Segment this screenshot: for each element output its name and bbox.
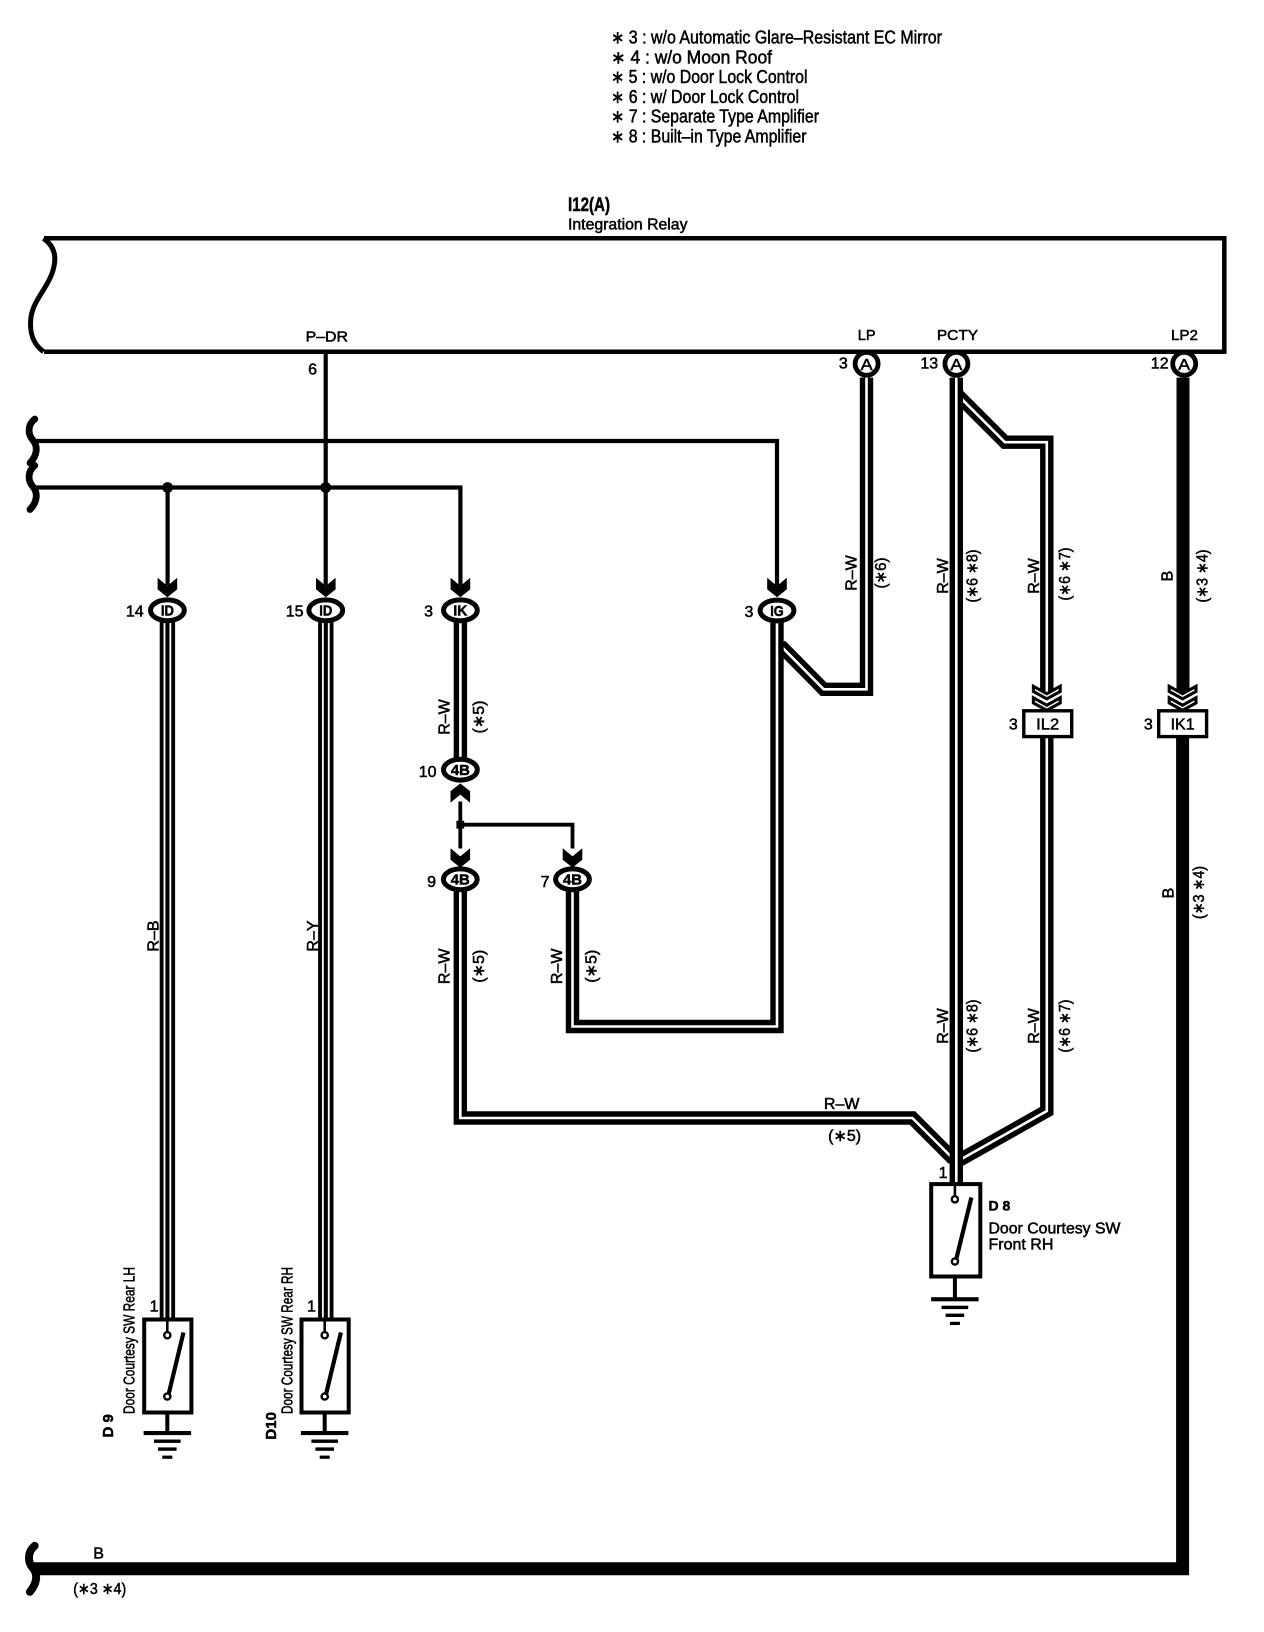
wire below IL2 to D8 junction (double line)	[959, 737, 1047, 1161]
ground stub below D9	[165, 1413, 169, 1432]
svg-text:LP: LP	[858, 327, 876, 344]
svg-text:1: 1	[939, 1165, 948, 1182]
ground stub below D8	[953, 1277, 957, 1298]
ground stub below D10	[323, 1413, 327, 1432]
svg-text:I12(A): I12(A)	[568, 195, 610, 216]
svg-text:PCTY: PCTY	[937, 327, 978, 344]
svg-text:D 8: D 8	[989, 1198, 1011, 1214]
wire bus 1 horizontal to IG	[34, 441, 777, 586]
svg-text:(∗5): (∗5)	[828, 1128, 861, 1145]
wire B LP2 to IK1 (thick)	[1177, 378, 1190, 694]
wire link 4B10 to 4B9/4B7 junction	[458, 802, 462, 849]
svg-text:(∗6): (∗6)	[873, 558, 890, 589]
svg-text:Door Courtesy SW Rear RH: Door Courtesy SW Rear RH	[280, 1267, 297, 1414]
svg-text:(∗3 ∗4): (∗3 ∗4)	[1195, 550, 1212, 603]
wire IG down and across to 4B7 (double line)	[573, 622, 778, 1027]
svg-text:15: 15	[286, 603, 304, 620]
switch D9 Door Courtesy SW Rear LH	[144, 1320, 191, 1413]
svg-text:4B: 4B	[451, 872, 470, 889]
svg-text:P–DR: P–DR	[306, 329, 349, 346]
svg-text:R–W: R–W	[935, 1007, 952, 1043]
svg-text:IG: IG	[770, 603, 784, 620]
svg-text:R–W: R–W	[824, 1096, 860, 1113]
svg-text:Integration Relay: Integration Relay	[568, 217, 688, 234]
svg-text:B: B	[1160, 571, 1177, 582]
arrow into 4B9	[451, 848, 471, 867]
svg-text:R–W: R–W	[1026, 557, 1043, 593]
svg-text:Door Courtesy SW Rear LH: Door Courtesy SW Rear LH	[121, 1267, 138, 1414]
svg-text:(∗5): (∗5)	[471, 701, 488, 734]
arrow into IK	[451, 578, 471, 597]
junction node below 4B10	[456, 821, 464, 829]
svg-text:∗ 3 : w/o Automatic Glare–Resi: ∗ 3 : w/o Automatic Glare–Resistant EC M…	[611, 28, 942, 48]
svg-text:R–W: R–W	[437, 698, 454, 734]
svg-text:IL2: IL2	[1036, 717, 1059, 734]
break symbol on bus 2	[29, 466, 36, 510]
svg-text:A: A	[861, 357, 873, 374]
svg-text:(∗5): (∗5)	[471, 950, 488, 983]
svg-text:R–B: R–B	[146, 920, 163, 951]
svg-text:R–W: R–W	[437, 948, 454, 984]
connector ID pin 14	[151, 600, 185, 621]
svg-text:1: 1	[307, 1299, 316, 1316]
wire R-W PCTY branch to IL2 (double line)	[958, 395, 1047, 694]
svg-text:9: 9	[427, 874, 436, 891]
ground symbol at D10	[301, 1431, 349, 1459]
arrow into 4B7	[563, 848, 583, 867]
wire R-B from ID14 to D9 (triple line)	[160, 621, 175, 1320]
svg-text:IK1: IK1	[1171, 717, 1195, 734]
svg-text:R–W: R–W	[1026, 1007, 1043, 1043]
wire branch to ID pin 14	[166, 488, 170, 586]
wire R-W (*5) IK to 4B10 (double line)	[454, 621, 467, 759]
svg-text:R–W: R–W	[844, 554, 861, 590]
svg-text:(∗6 ∗7): (∗6 ∗7)	[1057, 548, 1074, 601]
wire B below IK1 to bottom-left (thick)	[34, 737, 1183, 1569]
svg-text:10: 10	[419, 764, 437, 781]
svg-text:Front RH: Front RH	[989, 1237, 1054, 1254]
svg-text:7: 7	[541, 874, 550, 891]
svg-text:∗ 5 : w/o Door Lock Control: ∗ 5 : w/o Door Lock Control	[611, 67, 808, 87]
svg-text:R–W: R–W	[549, 948, 566, 984]
svg-text:3: 3	[1144, 716, 1153, 733]
junction node on bus 2 at x326	[320, 482, 331, 493]
svg-text:Door Courtesy SW: Door Courtesy SW	[989, 1220, 1122, 1237]
connector IL2 pin 3	[1024, 711, 1072, 737]
svg-text:A: A	[950, 357, 962, 374]
connector 4B pin 7	[556, 869, 590, 890]
relay I12(A) Integration Relay box	[31, 236, 1225, 354]
connector circle A at LP pin 3	[855, 352, 878, 375]
connector IK1 pin 3	[1159, 711, 1207, 737]
svg-text:3: 3	[1009, 716, 1018, 733]
svg-text:14: 14	[126, 603, 144, 620]
svg-text:(∗3 ∗4): (∗3 ∗4)	[1191, 866, 1208, 919]
connector circle A at PCTY pin 13	[945, 352, 968, 375]
svg-text:ID: ID	[319, 603, 332, 620]
arrow into ID15	[316, 578, 336, 597]
connector 4B pin 9	[443, 869, 477, 890]
svg-text:A: A	[1178, 357, 1190, 374]
junction node on bus 2 at x167	[162, 482, 173, 493]
open chevron arrows into IK1	[1169, 686, 1196, 710]
svg-text:(∗6 ∗7): (∗6 ∗7)	[1057, 1000, 1074, 1053]
svg-text:12: 12	[1151, 355, 1169, 372]
connector IK pin 3	[444, 600, 478, 621]
svg-text:3: 3	[839, 355, 848, 372]
wire P-DR pin 6 vertical	[324, 354, 328, 586]
ground symbol at D9	[144, 1431, 192, 1459]
arrow up into 4B10	[451, 783, 471, 802]
wire bus 2 horizontal to IK	[34, 488, 461, 586]
svg-text:3: 3	[424, 603, 433, 620]
svg-text:LP2: LP2	[1171, 327, 1198, 344]
wire R-W PCTY main down to D8 (double line)	[950, 378, 963, 1185]
svg-text:(∗5): (∗5)	[584, 950, 601, 983]
wire R-W (*5) below 4B9 to D8 junction (double line)	[460, 892, 953, 1160]
wire R-Y from ID15 to D10 (triple line)	[318, 621, 333, 1320]
break symbol on bus 1	[29, 419, 36, 463]
svg-text:∗ 6 : w/ Door Lock Control: ∗ 6 : w/ Door Lock Control	[611, 87, 799, 107]
svg-text:B: B	[1161, 888, 1178, 899]
svg-text:1: 1	[150, 1299, 159, 1316]
svg-text:R–W: R–W	[935, 557, 952, 593]
svg-text:4B: 4B	[563, 872, 582, 889]
svg-text:∗ 7 : Separate Type Amplifier: ∗ 7 : Separate Type Amplifier	[611, 107, 819, 127]
svg-text:(∗6 ∗8): (∗6 ∗8)	[965, 1000, 982, 1053]
svg-text:R–Y: R–Y	[305, 920, 322, 951]
svg-text:D10: D10	[263, 1412, 280, 1440]
ground symbol at D8	[931, 1297, 979, 1325]
svg-text:(∗6 ∗8): (∗6 ∗8)	[965, 550, 982, 603]
svg-text:13: 13	[920, 355, 938, 372]
svg-text:ID: ID	[161, 603, 174, 620]
break symbol on bottom B wire	[29, 1546, 36, 1592]
svg-text:D 9: D 9	[100, 1414, 117, 1437]
arrow into IG	[767, 578, 787, 597]
svg-text:(∗3 ∗4): (∗3 ∗4)	[73, 1581, 126, 1598]
svg-text:IK: IK	[453, 603, 467, 620]
connector ID pin 15	[309, 600, 343, 621]
connector 4B pin 10	[444, 759, 478, 780]
arrow into ID14	[158, 578, 178, 597]
svg-text:∗ 4 : w/o Moon Roof: ∗ 4 : w/o Moon Roof	[611, 47, 773, 67]
svg-text:6: 6	[308, 362, 317, 379]
wire R-W LP to IG merge (double line)	[780, 378, 866, 690]
open chevron arrows into IL2	[1033, 686, 1060, 710]
switch D8 Door Courtesy SW Front RH	[931, 1184, 980, 1276]
connector circle A at LP2 pin 12	[1173, 352, 1196, 375]
svg-text:3: 3	[744, 604, 753, 621]
svg-text:B: B	[93, 1546, 104, 1563]
connector IG pin 3	[760, 600, 794, 621]
svg-text:∗ 8 : Built–in Type Amplifier: ∗ 8 : Built–in Type Amplifier	[611, 127, 807, 147]
switch D10 Door Courtesy SW Rear RH	[302, 1320, 349, 1413]
svg-text:4B: 4B	[451, 762, 470, 779]
